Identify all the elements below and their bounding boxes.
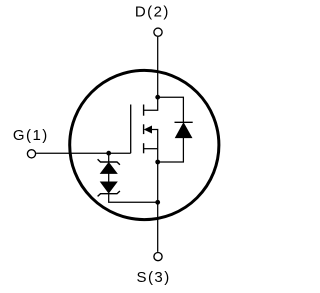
terminal G pin 1 <box>27 150 35 158</box>
body diode cathode bar <box>175 121 193 123</box>
node drain junction <box>155 95 160 100</box>
terminal D pin 2 <box>154 28 162 36</box>
wire drain down to channel stub <box>144 97 158 110</box>
zener Z1 anode triangle <box>101 163 118 174</box>
MOSFET body contact bar <box>143 124 145 134</box>
MOSFET drain contact bar <box>143 105 145 116</box>
wire drain vertical <box>157 37 159 97</box>
zener Z2 cathode bar with hooks <box>98 191 120 196</box>
MOSFET source contact bar <box>143 143 145 153</box>
wire source stub <box>144 148 158 150</box>
svg-text:S(3): S(3) <box>137 269 171 286</box>
wire zener bottom return to source <box>109 194 158 203</box>
MOSFET body arrow <box>144 126 151 133</box>
svg-text:G(1): G(1) <box>13 127 49 144</box>
node zener-source junction <box>155 200 160 205</box>
body diode anode triangle <box>175 123 191 138</box>
zener Z1 cathode bar with hooks <box>98 159 120 164</box>
zener Z2 anode triangle <box>101 182 118 193</box>
node diode-source junction <box>155 160 160 165</box>
envelope circle <box>70 70 219 219</box>
wire body to source vertical <box>152 130 158 252</box>
node gate-zener junction <box>106 151 111 156</box>
MOSFET gate electrode <box>130 105 132 154</box>
wire zener top lead <box>108 153 110 162</box>
wire body-diode bottom to source junction <box>158 138 184 162</box>
wire gate horizontal <box>36 152 131 154</box>
terminal S pin 3 <box>154 253 162 261</box>
wire zener anode-anode link <box>108 174 110 182</box>
svg-text:D(2): D(2) <box>135 3 170 20</box>
wire drain junction to body-diode top <box>158 97 184 122</box>
